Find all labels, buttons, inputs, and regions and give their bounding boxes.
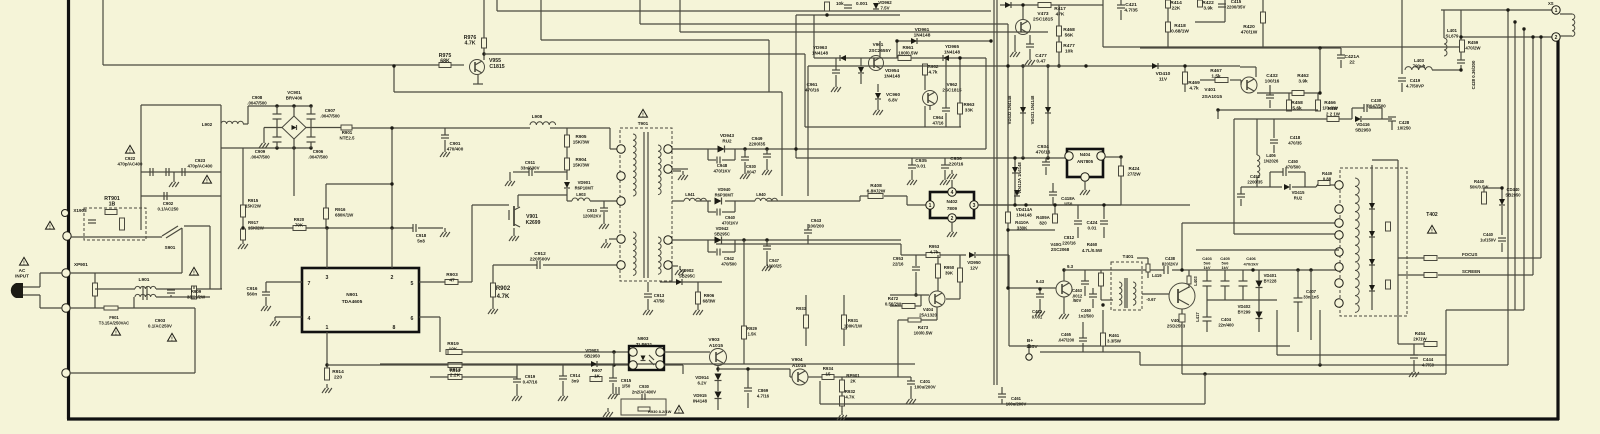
svg-text:RU2: RU2 xyxy=(722,138,732,143)
svg-text:22: 22 xyxy=(1349,59,1355,65)
svg-text:VD415: VD415 xyxy=(1292,190,1305,195)
svg-text:C949: C949 xyxy=(752,136,763,141)
svg-text:C430: C430 xyxy=(1371,98,1382,103)
svg-text:2SC1815: 2SC1815 xyxy=(1033,16,1053,22)
svg-text:C1815: C1815 xyxy=(489,64,504,70)
svg-text:VD940: VD940 xyxy=(718,187,731,192)
svg-text:33K: 33K xyxy=(965,107,974,112)
svg-text:C911: C911 xyxy=(525,160,536,165)
svg-text:0.01: 0.01 xyxy=(1088,225,1097,230)
svg-text:C947: C947 xyxy=(769,258,780,263)
svg-text:L403: L403 xyxy=(1414,58,1425,63)
svg-text:C935: C935 xyxy=(915,158,927,164)
svg-text:6: 6 xyxy=(411,316,414,322)
svg-text:SB295C: SB295C xyxy=(679,273,696,278)
svg-text:15K/3W: 15K/3W xyxy=(573,139,590,144)
svg-text:R449: R449 xyxy=(1322,171,1333,176)
svg-text:V903: V903 xyxy=(708,337,720,343)
svg-text:15K/2W: 15K/2W xyxy=(245,203,262,208)
svg-text:1B: 1B xyxy=(109,201,116,207)
svg-text:1: 1 xyxy=(326,325,329,331)
svg-text:1200/2KV: 1200/2KV xyxy=(583,213,602,218)
svg-text:100/0.5W: 100/0.5W xyxy=(914,330,934,335)
svg-text:330K/2W: 330K/2W xyxy=(187,294,206,299)
svg-text:3.3/5W: 3.3/5W xyxy=(1107,338,1122,343)
svg-text:R420: R420 xyxy=(1243,24,1255,30)
svg-text:470/1KV: 470/1KV xyxy=(722,220,739,225)
svg-text:3: 3 xyxy=(326,275,329,281)
svg-text:7.5V: 7.5V xyxy=(880,5,889,10)
svg-text:2n2/AC400V: 2n2/AC400V xyxy=(632,389,656,394)
svg-text:C906: C906 xyxy=(313,149,324,154)
svg-text:1: 1 xyxy=(929,203,932,209)
svg-text:C812: C812 xyxy=(1064,235,1075,240)
svg-text:L406: L406 xyxy=(1266,153,1276,158)
svg-text:R901: R901 xyxy=(342,130,353,135)
svg-text:V473: V473 xyxy=(1037,11,1049,17)
svg-text:47/16: 47/16 xyxy=(933,120,945,125)
svg-text:1n2/500: 1n2/500 xyxy=(1078,313,1094,318)
svg-text:.0047: .0047 xyxy=(746,169,757,174)
svg-text:C901: C901 xyxy=(450,141,461,146)
svg-text:SB2950: SB2950 xyxy=(584,353,600,358)
svg-text:2: 2 xyxy=(391,275,394,281)
svg-text:220/500V: 220/500V xyxy=(530,256,551,262)
svg-text:33n/630V: 33n/630V xyxy=(520,165,539,170)
svg-text:100u/200V: 100u/200V xyxy=(1006,401,1027,406)
svg-text:-0.67: -0.67 xyxy=(1146,297,1156,302)
svg-text:4: 4 xyxy=(951,190,954,196)
svg-text:L901: L901 xyxy=(139,277,150,283)
svg-text:1N4148: 1N4148 xyxy=(944,49,961,54)
svg-text:C914: C914 xyxy=(570,373,581,378)
svg-text:C912: C912 xyxy=(534,251,546,257)
svg-text:0.47: 0.47 xyxy=(1036,58,1046,64)
svg-text:VD416: VD416 xyxy=(1356,122,1370,127)
svg-text:R950: R950 xyxy=(944,265,955,270)
svg-text:R919: R919 xyxy=(447,341,459,347)
svg-text:3: 3 xyxy=(973,203,976,209)
svg-text:6.8V: 6.8V xyxy=(888,97,898,102)
svg-text:100/0.5W: 100/0.5W xyxy=(898,50,918,55)
svg-text:VD414A: VD414A xyxy=(1016,207,1033,212)
svg-text:R916: R916 xyxy=(335,207,346,212)
svg-text:FOCUS: FOCUS xyxy=(1462,252,1477,257)
svg-text:N901: N901 xyxy=(346,292,358,298)
svg-text:T901: T901 xyxy=(638,121,649,126)
svg-text:15: 15 xyxy=(826,371,831,376)
svg-text:R473: R473 xyxy=(918,325,929,330)
svg-text:4.7L/0.5W: 4.7L/0.5W xyxy=(1082,248,1103,253)
svg-text:C428 0.36/200: C428 0.36/200 xyxy=(1471,60,1476,89)
svg-text:2K/1W: 2K/1W xyxy=(1413,336,1427,341)
svg-text:C934: C934 xyxy=(1037,144,1049,150)
svg-text:R467: R467 xyxy=(1210,68,1222,74)
svg-text:2200/35: 2200/35 xyxy=(749,141,766,146)
svg-text:C465: C465 xyxy=(1061,332,1072,337)
svg-text:2.2K: 2.2K xyxy=(450,372,461,378)
svg-text:VD950: VD950 xyxy=(967,260,981,265)
svg-text:C401: C401 xyxy=(920,379,931,384)
svg-text:100/200: 100/200 xyxy=(808,223,824,228)
svg-text:SB295C: SB295C xyxy=(714,231,730,236)
svg-text:47K: 47K xyxy=(1056,11,1065,17)
svg-text:YD963: YD963 xyxy=(813,45,827,50)
svg-text:TDA4605: TDA4605 xyxy=(342,299,363,305)
svg-text:VD402: VD402 xyxy=(1238,304,1251,309)
svg-text:C903: C903 xyxy=(155,318,166,323)
svg-text:R953: R953 xyxy=(929,244,940,249)
svg-text:4.7/16: 4.7/16 xyxy=(757,393,770,398)
svg-text:C919: C919 xyxy=(525,374,536,379)
svg-text:56K: 56K xyxy=(1065,32,1074,38)
svg-text:R904: R904 xyxy=(576,157,587,162)
svg-text:1K: 1K xyxy=(594,373,600,378)
svg-text:470p/AC400: 470p/AC400 xyxy=(118,161,143,166)
svg-text:C909: C909 xyxy=(255,149,266,154)
svg-text:R408: R408 xyxy=(870,183,882,189)
svg-text:R931: R931 xyxy=(848,318,859,323)
svg-text:VD410: VD410 xyxy=(1156,71,1171,77)
svg-text:C406: C406 xyxy=(1246,256,1256,261)
svg-text:12V: 12V xyxy=(970,265,978,270)
svg-text:X1903: X1903 xyxy=(73,208,87,213)
svg-text:R469: R469 xyxy=(1188,80,1200,86)
svg-text:4.7K: 4.7K xyxy=(845,394,855,399)
svg-text:XS: XS xyxy=(1548,1,1554,6)
svg-text:0.47/16: 0.47/16 xyxy=(523,379,538,384)
svg-text:1N2026: 1N2026 xyxy=(1264,158,1279,163)
svg-text:C477: C477 xyxy=(1035,53,1047,59)
svg-text:470/1KV: 470/1KV xyxy=(713,168,730,173)
svg-text:R409A: R409A xyxy=(1036,215,1050,220)
svg-text:V962: V962 xyxy=(947,82,958,87)
svg-text:R472: R472 xyxy=(888,296,899,301)
svg-text:C463: C463 xyxy=(1072,288,1083,293)
svg-text:.047/200: .047/200 xyxy=(1058,337,1075,342)
svg-text:VD914: VD914 xyxy=(695,375,709,380)
svg-text:VD902: VD902 xyxy=(680,268,694,273)
svg-text:TLP621: TLP621 xyxy=(636,342,653,347)
svg-text:T401: T401 xyxy=(1123,254,1134,260)
svg-text:C930: C930 xyxy=(639,384,650,389)
svg-text:4.7K: 4.7K xyxy=(465,40,476,46)
svg-text:VD943: VD943 xyxy=(720,133,734,138)
svg-text:1N4148: 1N4148 xyxy=(884,73,901,78)
svg-text:BY299: BY299 xyxy=(1238,309,1251,314)
svg-text:100u/200V: 100u/200V xyxy=(914,384,936,389)
svg-text:C910: C910 xyxy=(587,208,598,213)
svg-text:VD401: VD401 xyxy=(1264,273,1277,278)
svg-text:C918: C918 xyxy=(416,233,427,238)
svg-text:R424: R424 xyxy=(1129,166,1140,171)
svg-text:/50V: /50V xyxy=(1073,298,1082,303)
svg-text:.0047/500: .0047/500 xyxy=(247,100,267,105)
svg-text:7809: 7809 xyxy=(947,206,958,211)
svg-text:R417: R417 xyxy=(1054,6,1066,12)
svg-text:VC960: VC960 xyxy=(886,92,900,97)
svg-text:1N4148: 1N4148 xyxy=(1016,212,1032,217)
svg-text:VD431 1N4148: VD431 1N4148 xyxy=(1030,95,1035,124)
svg-text:0.001: 0.001 xyxy=(856,1,868,6)
svg-text:R457: R457 xyxy=(1328,106,1339,111)
svg-text:A1015: A1015 xyxy=(709,343,723,349)
svg-text:R414: R414 xyxy=(1170,0,1182,6)
svg-text:R932: R932 xyxy=(845,389,856,394)
svg-text:SB2950: SB2950 xyxy=(1355,127,1371,132)
svg-text:C953: C953 xyxy=(893,256,904,261)
svg-text:2: 2 xyxy=(1555,35,1558,41)
svg-text:VD954: VD954 xyxy=(885,68,899,73)
svg-text:L417: L417 xyxy=(1195,312,1200,322)
svg-text:C869: C869 xyxy=(758,388,769,393)
svg-text:820/2KV: 820/2KV xyxy=(1162,261,1179,266)
svg-text:R903: R903 xyxy=(446,272,458,278)
svg-text:RU2: RU2 xyxy=(1294,195,1303,200)
svg-text:0.1/AC250: 0.1/AC250 xyxy=(158,206,180,211)
svg-text:2200/35: 2200/35 xyxy=(1247,179,1263,184)
svg-text:1000/25: 1000/25 xyxy=(766,263,782,268)
svg-text:R468: R468 xyxy=(1063,27,1075,33)
svg-text:C923: C923 xyxy=(195,158,206,163)
svg-text:C418: C418 xyxy=(1290,135,1301,140)
svg-text:1kV: 1kV xyxy=(1203,265,1210,270)
svg-text:XP901: XP901 xyxy=(74,262,88,267)
svg-text:R920: R920 xyxy=(294,217,305,222)
svg-text:V904: V904 xyxy=(791,357,803,363)
svg-text:VD915: VD915 xyxy=(693,393,707,398)
svg-text:9.43: 9.43 xyxy=(1036,279,1045,284)
svg-text:10k: 10k xyxy=(836,1,844,6)
svg-text:11V: 11V xyxy=(1159,76,1168,82)
svg-text:VD962: VD962 xyxy=(878,0,892,5)
svg-text:47/50: 47/50 xyxy=(654,298,666,303)
svg-text:10k: 10k xyxy=(1065,48,1073,54)
svg-text:R410A: R410A xyxy=(1015,220,1029,225)
svg-text:4.7k: 4.7k xyxy=(930,249,939,254)
svg-text:AN7805: AN7805 xyxy=(1077,159,1094,164)
svg-text:VD942: VD942 xyxy=(716,226,729,231)
svg-text:790uh: 790uh xyxy=(1413,63,1426,68)
svg-text:2: 2 xyxy=(951,216,954,222)
svg-text:SL679: SL679 xyxy=(1446,33,1459,38)
svg-text:0.1/AC250V: 0.1/AC250V xyxy=(148,323,172,328)
svg-text:C424: C424 xyxy=(1087,220,1098,225)
svg-text:SCREEN: SCREEN xyxy=(1462,269,1480,274)
svg-text:C940: C940 xyxy=(725,215,736,220)
svg-text:C404: C404 xyxy=(1221,317,1232,322)
svg-text:IN4148: IN4148 xyxy=(693,398,708,403)
svg-text:L908: L908 xyxy=(532,114,543,119)
svg-text:C415: C415 xyxy=(1231,0,1242,4)
svg-text:2SC2068: 2SC2068 xyxy=(1051,247,1070,252)
svg-text:C930: C930 xyxy=(746,164,757,169)
svg-text:T3.15A/250VAC: T3.15A/250VAC xyxy=(99,320,129,325)
svg-text:C943: C943 xyxy=(811,218,822,223)
svg-text:C460: C460 xyxy=(1081,308,1092,313)
svg-text:4.7/35: 4.7/35 xyxy=(1124,7,1138,13)
svg-text:4.7k: 4.7k xyxy=(1189,85,1199,91)
svg-text:100K/1W: 100K/1W xyxy=(844,323,863,328)
svg-text:4.7k: 4.7k xyxy=(929,69,938,74)
svg-text:6.2V: 6.2V xyxy=(697,380,706,385)
svg-text:39K: 39K xyxy=(945,270,954,275)
svg-text:C907: C907 xyxy=(325,108,336,113)
svg-text:470/2kV: 470/2kV xyxy=(1244,261,1259,266)
svg-text:70K: 70K xyxy=(295,222,304,227)
svg-text:C942: C942 xyxy=(724,256,735,261)
svg-text:25A1320: 25A1320 xyxy=(919,312,937,317)
svg-text:C438: C438 xyxy=(1165,256,1176,261)
svg-text:R915: R915 xyxy=(248,198,259,203)
svg-text:2SA1015: 2SA1015 xyxy=(1202,94,1222,100)
svg-text:8: 8 xyxy=(393,325,396,331)
svg-text:R934: R934 xyxy=(823,366,834,371)
svg-text:27/2W: 27/2W xyxy=(1127,171,1141,176)
svg-text:820: 820 xyxy=(1039,220,1047,225)
svg-text:R917: R917 xyxy=(248,220,259,225)
svg-text:C936: C936 xyxy=(950,156,962,162)
svg-text:VD432 1N4148: VD432 1N4148 xyxy=(1007,95,1012,124)
svg-text:RP901: RP901 xyxy=(846,373,860,378)
svg-text:R914: R914 xyxy=(332,369,344,375)
svg-text:1kV: 1kV xyxy=(1221,265,1228,270)
svg-text:L902: L902 xyxy=(202,122,213,127)
svg-text:C421: C421 xyxy=(1125,2,1137,8)
svg-text:L941: L941 xyxy=(685,192,695,197)
svg-text:3.9k: 3.9k xyxy=(1298,78,1308,84)
svg-text:R905: R905 xyxy=(576,134,587,139)
svg-text:2200/35V: 2200/35V xyxy=(1227,4,1246,9)
svg-text:A1015: A1015 xyxy=(792,363,806,369)
svg-text:1/50: 1/50 xyxy=(622,383,631,388)
svg-text:V961: V961 xyxy=(873,42,884,47)
svg-text:C916: C916 xyxy=(247,286,258,291)
svg-text:3.9k: 3.9k xyxy=(1203,5,1213,11)
svg-text:7: 7 xyxy=(308,281,311,287)
svg-text:2SC1815: 2SC1815 xyxy=(942,87,962,92)
svg-text:C461: C461 xyxy=(1011,396,1022,401)
svg-text:0.001: 0.001 xyxy=(1032,314,1043,319)
svg-text:68K: 68K xyxy=(440,58,450,64)
svg-text:470p/AC400: 470p/AC400 xyxy=(188,163,213,168)
svg-text:.0047/500: .0047/500 xyxy=(308,154,328,159)
svg-text:C913: C913 xyxy=(654,293,665,298)
svg-text:C908: C908 xyxy=(252,95,263,100)
svg-text:R422: R422 xyxy=(1202,0,1214,6)
svg-text:4.7/50VP: 4.7/50VP xyxy=(1406,83,1424,88)
svg-text:470/16: 470/16 xyxy=(1036,149,1051,155)
svg-text:1: 1 xyxy=(1555,8,1558,14)
svg-text:0.88: 0.88 xyxy=(1323,176,1332,181)
svg-text:470/2W: 470/2W xyxy=(1465,45,1481,50)
svg-text:R906: R906 xyxy=(704,293,715,298)
svg-text:VD901: VD901 xyxy=(578,180,591,185)
svg-text:9.3: 9.3 xyxy=(1067,264,1074,269)
svg-text:22n/400: 22n/400 xyxy=(1218,322,1234,327)
svg-text:15K/3W: 15K/3W xyxy=(573,162,590,167)
svg-text:4.7K: 4.7K xyxy=(497,294,510,300)
svg-text:R418: R418 xyxy=(1174,23,1186,29)
svg-text:470/500: 470/500 xyxy=(721,261,737,266)
svg-text:470/1W: 470/1W xyxy=(1241,29,1258,35)
svg-text:5: 5 xyxy=(411,281,414,287)
svg-text:C922: C922 xyxy=(125,156,136,161)
svg-text:L403: L403 xyxy=(1193,276,1198,286)
svg-text:T402: T402 xyxy=(1426,212,1438,218)
svg-text:22/16: 22/16 xyxy=(893,261,905,266)
svg-text:S901: S901 xyxy=(165,245,176,250)
svg-text:R460: R460 xyxy=(1087,242,1098,247)
svg-text:R907: R907 xyxy=(592,368,603,373)
svg-text:4: 4 xyxy=(308,316,311,322)
svg-text:C418A: C418A xyxy=(1061,196,1075,201)
svg-text:6.8K/2W: 6.8K/2W xyxy=(867,188,886,194)
svg-text:R462: R462 xyxy=(1297,73,1309,79)
svg-text:NTE2.5: NTE2.5 xyxy=(340,135,355,140)
svg-text:C419: C419 xyxy=(1410,78,1421,83)
svg-text:R929: R929 xyxy=(747,326,758,331)
svg-text:F901: F901 xyxy=(109,315,119,320)
svg-text:C440: C440 xyxy=(1483,232,1494,237)
svg-text:VC901: VC901 xyxy=(287,90,301,95)
svg-text:C451: C451 xyxy=(1250,174,1261,179)
svg-text:L903: L903 xyxy=(576,192,586,197)
svg-text:3n9: 3n9 xyxy=(571,378,579,383)
svg-text:R6P30MT: R6P30MT xyxy=(715,192,734,197)
svg-text:R454: R454 xyxy=(1415,331,1426,336)
svg-text:680K/1W: 680K/1W xyxy=(335,212,354,217)
svg-text:R902: R902 xyxy=(496,286,511,292)
svg-text:1N4148: 1N4148 xyxy=(812,50,829,55)
svg-text:R913: R913 xyxy=(449,367,461,373)
svg-text:VD903: VD903 xyxy=(585,348,599,353)
svg-text:100/16: 100/16 xyxy=(1265,78,1280,84)
svg-text:L419: L419 xyxy=(1152,273,1162,278)
svg-text:220: 220 xyxy=(334,374,342,380)
svg-text:560n: 560n xyxy=(247,291,258,296)
svg-text:470/400: 470/400 xyxy=(447,146,464,151)
svg-text:AC: AC xyxy=(19,268,26,273)
svg-text:B+: B+ xyxy=(1027,338,1033,344)
svg-text:1.5K: 1.5K xyxy=(748,331,757,336)
svg-text:C421A: C421A xyxy=(1345,54,1360,60)
svg-text:C948: C948 xyxy=(717,163,728,168)
svg-text:V404: V404 xyxy=(923,307,934,312)
svg-text:R909: R909 xyxy=(191,289,202,294)
svg-text:470/500: 470/500 xyxy=(1285,164,1301,169)
svg-text:R933: R933 xyxy=(796,306,807,311)
svg-text:.0047/500: .0047/500 xyxy=(320,113,340,118)
svg-text:R930 8.2/1W: R930 8.2/1W xyxy=(648,409,672,414)
svg-text:C450: C450 xyxy=(1288,159,1299,164)
svg-text:BY228: BY228 xyxy=(1264,278,1277,283)
svg-text:K2699: K2699 xyxy=(526,220,541,226)
svg-text:C444: C444 xyxy=(1423,357,1434,362)
svg-text:1.5k: 1.5k xyxy=(1211,73,1221,79)
svg-text:10/250: 10/250 xyxy=(1397,125,1411,130)
svg-text:R440: R440 xyxy=(1474,179,1485,184)
svg-text:R477: R477 xyxy=(1063,43,1075,49)
svg-text:.0047/500: .0047/500 xyxy=(250,154,270,159)
svg-text:INPUT: INPUT xyxy=(15,273,29,278)
svg-text:C432: C432 xyxy=(1266,73,1278,79)
svg-text:1u/150V: 1u/150V xyxy=(1480,237,1496,242)
svg-text:47: 47 xyxy=(449,277,455,283)
svg-text:BRV406: BRV406 xyxy=(286,95,303,100)
svg-text:R458: R458 xyxy=(1291,100,1303,106)
svg-text:R459: R459 xyxy=(1468,40,1479,45)
